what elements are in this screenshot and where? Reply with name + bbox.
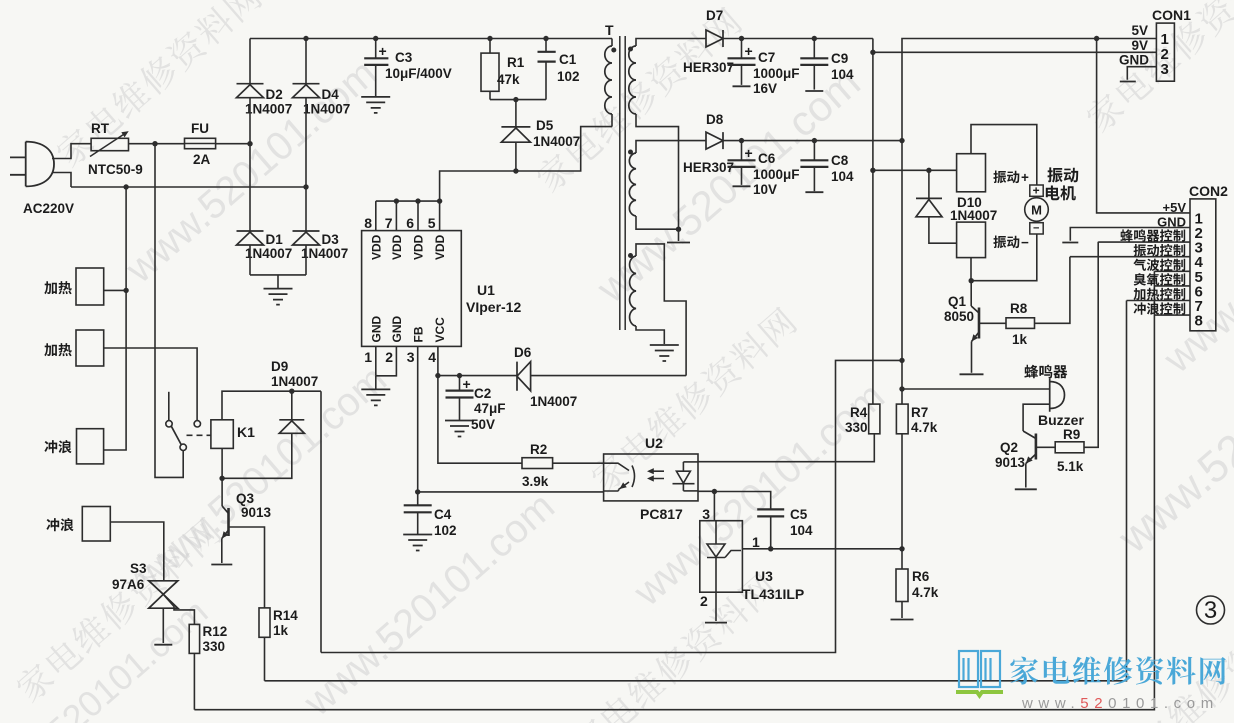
wire R2 to U2 collector	[553, 462, 604, 464]
wire CON2 pin5 line	[1154, 270, 1190, 272]
wire R14 to bus2	[264, 637, 266, 681]
svg-text:D1: D1	[266, 232, 284, 247]
label 蜂鸣器	[1024, 365, 1067, 379]
connector CON2	[1190, 199, 1216, 331]
wire R4 to opto LED	[698, 434, 874, 462]
wire D8 cathode rail	[723, 140, 902, 142]
connector terminal vib-	[957, 222, 986, 258]
wire D4-D3 leg upper	[305, 39, 307, 84]
svg-text:M: M	[1031, 203, 1042, 218]
ground Q3 emitter	[211, 564, 232, 566]
wire V1 AC-N drop	[104, 187, 127, 450]
wire heater-2 to relay NO	[104, 348, 197, 420]
svg-text:3: 3	[407, 349, 415, 365]
wire drain line to primary	[440, 127, 612, 202]
page number circle 3	[1197, 596, 1225, 624]
wire D4-D3 leg middle	[305, 98, 307, 231]
wire vib+ to motor	[971, 125, 1037, 185]
secondary-1 phase dot	[628, 47, 633, 52]
wire bus2 (heater control)	[265, 301, 1127, 681]
svg-text:GND: GND	[1119, 53, 1149, 68]
junction snubber / D5	[513, 97, 518, 102]
capacitor C3	[364, 58, 388, 65]
label 冲浪 1	[44, 440, 71, 453]
wire CON2 pin6 line	[1154, 285, 1190, 287]
decor	[12, 515, 224, 706]
ground bridge negative	[264, 289, 293, 305]
wire 5V rail corner and drop	[902, 39, 1156, 405]
wire plug-N to AC-N line	[52, 173, 71, 188]
junction VCC / C2	[457, 373, 462, 378]
IC U1 Viper-12 body	[362, 231, 462, 347]
junction VDD pins 6	[415, 198, 420, 203]
ground C4	[403, 535, 432, 551]
wire CON1 gnd	[1127, 67, 1156, 80]
wire bus1 (+5V to relay)	[321, 360, 902, 652]
svg-text:Buzzer: Buzzer	[1038, 412, 1084, 428]
decor	[1082, 0, 1234, 135]
svg-text:C3: C3	[395, 50, 413, 65]
svg-text:C2: C2	[474, 386, 491, 401]
svg-text:C9: C9	[831, 51, 848, 66]
label 臭氧控制	[1134, 273, 1186, 286]
wire U1 gnd drop	[375, 376, 377, 390]
junction 9V rail / C9	[812, 36, 817, 41]
svg-text:Q1: Q1	[948, 294, 967, 309]
junction ref / R7 / R6	[899, 546, 904, 551]
svg-text:+: +	[1021, 170, 1029, 185]
svg-text:S3: S3	[130, 561, 147, 576]
decor	[567, 570, 779, 723]
ground secondary common	[667, 242, 690, 244]
svg-text:D7: D7	[706, 8, 723, 23]
junction VDD pins 7	[394, 198, 399, 203]
svg-text:GND: GND	[390, 316, 404, 343]
wire D2-D1 leg upper	[249, 39, 251, 84]
svg-text:GND: GND	[369, 316, 383, 343]
U1 pin 8 stub	[375, 201, 377, 231]
wire C8 top stub	[813, 141, 815, 161]
secondary-2 phase dot	[628, 150, 633, 155]
svg-text:AC220V: AC220V	[23, 201, 74, 216]
wire Q1 emitter drop	[971, 342, 973, 373]
U1 pin 3 FB line	[417, 346, 419, 492]
wire secondary common drop	[678, 229, 680, 241]
U1 pin 5 stub	[439, 201, 441, 231]
svg-text:VCC: VCC	[433, 317, 447, 343]
U2 led	[673, 462, 695, 491]
svg-text:HER307: HER307	[683, 160, 734, 175]
resistor R1	[481, 53, 499, 91]
load box heater-1	[76, 268, 104, 305]
svg-text:10V: 10V	[753, 182, 777, 197]
junction 9V / CON1-2 line	[870, 50, 875, 55]
shunt reg U3 body	[700, 521, 743, 593]
svg-text:8: 8	[1195, 313, 1203, 330]
wire motor- to Q1	[971, 234, 1037, 281]
svg-text:8050: 8050	[944, 309, 974, 324]
svg-text:3: 3	[702, 506, 710, 522]
wire secondary-2 top connect	[636, 141, 706, 153]
diode D3	[293, 231, 320, 245]
wire D10 anode to vib-	[929, 217, 957, 243]
svg-text:330: 330	[203, 639, 226, 654]
wire C3 bottom stub	[375, 65, 377, 97]
svg-text:C1: C1	[559, 52, 577, 67]
svg-text:104: 104	[790, 523, 813, 538]
label 蜂鸣器控制	[1120, 229, 1185, 242]
svg-text:2: 2	[700, 593, 708, 609]
junction FB / C4 / U2 emitter	[415, 489, 420, 494]
primary phase dot	[611, 48, 616, 53]
svg-text:3.9k: 3.9k	[522, 474, 549, 489]
svg-text:50V: 50V	[471, 417, 495, 432]
svg-text:102: 102	[434, 523, 457, 538]
wire U3 pin2 stub	[715, 592, 717, 621]
junction AC-L / V2 riser	[152, 141, 157, 146]
wire C7 top stub	[741, 39, 743, 59]
U1 pin 4 VCC stub	[437, 346, 439, 375]
wire VDD pin jumper	[376, 200, 440, 202]
ground C7	[733, 85, 751, 87]
wire bus1 left riser	[320, 391, 322, 652]
U1 pin 7 stub	[395, 201, 397, 231]
thermistor RT	[90, 131, 129, 156]
capacitor C1	[538, 52, 556, 62]
svg-text:D9: D9	[271, 359, 288, 374]
svg-text:1N4007: 1N4007	[245, 246, 292, 261]
svg-text:+: +	[379, 43, 387, 59]
svg-text:TL431ILP: TL431ILP	[742, 586, 804, 602]
svg-text:330: 330	[845, 420, 868, 435]
wire plug-L to RT line	[52, 144, 91, 159]
svg-text:97A6: 97A6	[112, 577, 145, 592]
svg-text:1N4007: 1N4007	[271, 374, 318, 389]
svg-text:D4: D4	[322, 87, 340, 102]
wire C1 bottom stub	[545, 62, 547, 100]
transformer aux winding	[630, 256, 636, 326]
svg-text:4.7k: 4.7k	[911, 420, 938, 435]
wire 9V motor feed	[873, 169, 957, 171]
wire D4-D3 leg lower	[305, 245, 307, 275]
aux phase dot	[628, 253, 633, 258]
resistor R14	[259, 608, 270, 637]
svg-text:CON1: CON1	[1152, 7, 1191, 23]
transistor Q2	[1023, 431, 1036, 464]
label 加热 1	[44, 281, 71, 294]
svg-text:GND: GND	[1157, 215, 1186, 230]
wire S3 MT1 to ground	[162, 608, 164, 643]
ground C3	[361, 97, 390, 113]
svg-text:CON2: CON2	[1189, 183, 1228, 199]
wire vib- bottom	[970, 258, 972, 281]
junction coil-top / D9 cathode	[289, 389, 294, 394]
junction drain line / D5	[513, 168, 518, 173]
wire C8 bottom stub	[813, 167, 815, 191]
resistor R4	[869, 404, 880, 434]
svg-text:K1: K1	[237, 424, 255, 440]
wire D2-D1 leg middle	[249, 98, 251, 231]
wire U2 led anode out	[683, 461, 698, 463]
U1 pin 1 stub	[375, 346, 377, 375]
svg-text:C6: C6	[758, 151, 776, 166]
junction AC-N / V1 riser	[123, 184, 128, 189]
load box surf-2	[82, 507, 110, 542]
label 加热控制	[1134, 288, 1186, 301]
svg-text:104: 104	[831, 169, 854, 184]
svg-text:R6: R6	[912, 569, 930, 584]
svg-text:FU: FU	[191, 121, 209, 136]
svg-text:3: 3	[1161, 61, 1169, 78]
wire Q2 base to R9	[1036, 446, 1055, 448]
wire heater-1 to AC-N	[104, 289, 126, 291]
svg-text:5: 5	[428, 215, 436, 231]
relay K1 blade	[171, 426, 181, 444]
capacitor C9	[800, 58, 828, 65]
junction ref / C5 bottom	[768, 546, 773, 551]
wire C7 bottom stub	[741, 65, 743, 85]
wire secondary-1 return	[636, 114, 679, 229]
wire C2 top stub	[459, 376, 461, 391]
svg-text:9013: 9013	[241, 505, 272, 520]
svg-text:9V: 9V	[1131, 38, 1148, 53]
wire K1 coil top to +5V riser	[222, 391, 321, 420]
junction motor feed / D10	[926, 168, 931, 173]
resistor R7	[896, 404, 908, 434]
wire D5 cathode stub	[515, 100, 517, 127]
svg-text:1N4007: 1N4007	[950, 208, 997, 223]
decor	[1107, 593, 1234, 723]
wire R6 to ground	[901, 602, 903, 619]
svg-text:4.7k: 4.7k	[912, 585, 939, 600]
diode D8	[706, 132, 723, 149]
svg-text:102: 102	[557, 69, 580, 84]
svg-text:7: 7	[385, 215, 393, 231]
junction VCC node	[435, 373, 440, 378]
wire D2-D1 leg lower	[249, 245, 251, 275]
wire top DC bus	[250, 38, 612, 40]
diode D5	[501, 127, 530, 142]
label 气波控制	[1133, 259, 1185, 272]
logo book base	[956, 692, 1003, 696]
wire secondary-2 return	[636, 216, 679, 229]
label 振动 motor	[1047, 167, 1078, 182]
junction 5V / relay feed	[899, 358, 904, 363]
svg-text:5V: 5V	[1131, 23, 1148, 38]
svg-text:6: 6	[406, 215, 414, 231]
ground U1 source	[361, 389, 390, 405]
svg-text:www.520101.com: www.520101.com	[1021, 695, 1219, 712]
resistor R9	[1055, 442, 1084, 453]
wire C5 bottom stub	[770, 516, 772, 548]
triac S3	[149, 581, 178, 608]
svg-text:8: 8	[364, 215, 372, 231]
wire V2 AC-L drop to relay common	[155, 144, 183, 478]
transformer primary winding	[605, 46, 612, 114]
label 冲浪控制	[1134, 302, 1186, 315]
wire C5 top line	[714, 492, 770, 510]
svg-text:+: +	[745, 43, 753, 59]
svg-text:2A: 2A	[193, 152, 211, 167]
wire D7 cathode rail	[723, 38, 873, 40]
svg-text:C5: C5	[790, 507, 808, 522]
load box surf-1	[77, 429, 104, 464]
wire surf-2 to S3	[110, 522, 164, 581]
svg-text:C8: C8	[831, 153, 849, 168]
AC plug P1	[10, 142, 54, 187]
junction 5V / CON2 riser	[1094, 36, 1099, 41]
wire D10 cathode stub	[928, 170, 930, 198]
diode D1	[237, 231, 264, 245]
svg-text:PC817: PC817	[640, 506, 683, 522]
svg-text:1k: 1k	[1012, 332, 1028, 347]
svg-text:FB: FB	[412, 326, 426, 342]
wire C4 bottom stub	[417, 512, 419, 534]
relay K1 actuation link	[187, 434, 211, 436]
svg-text:NTC50-9: NTC50-9	[88, 162, 143, 177]
wire R1 top stub	[489, 39, 491, 54]
svg-text:1N4007: 1N4007	[533, 134, 580, 149]
svg-text:Q3: Q3	[236, 491, 255, 506]
wire CON2 pin3 line	[1098, 241, 1190, 243]
svg-text:−: −	[1033, 223, 1039, 235]
svg-text:47k: 47k	[497, 72, 520, 87]
label 冲浪 2	[46, 518, 73, 531]
junction 9V rail / C7	[739, 36, 744, 41]
capacitor C7	[728, 58, 756, 65]
svg-text:1N4007: 1N4007	[245, 102, 292, 117]
transistor Q3	[222, 506, 229, 539]
wire U3 pin3 stub	[713, 492, 715, 521]
wire bus3 (airwave control)	[194, 271, 1154, 709]
junction AC-N / D4-D3 leg	[303, 184, 308, 189]
logo text 家电维修资料网	[1010, 656, 1226, 684]
svg-text:VDD: VDD	[433, 234, 447, 260]
wire 9V line to CON1	[873, 51, 1157, 53]
wire S3 gate to R12	[163, 594, 194, 624]
junction 5V / buzzer feed	[899, 386, 904, 391]
U2 phototransistor	[604, 463, 635, 491]
junction bus / C1	[543, 36, 548, 41]
svg-text:VDD: VDD	[412, 234, 426, 260]
svg-text:VDD: VDD	[369, 234, 383, 260]
wire 9V rail corner and drop	[872, 39, 874, 405]
junction secondary returns	[676, 227, 681, 232]
capacitor C8	[800, 160, 828, 167]
wire U3 ref line	[742, 548, 902, 550]
junction 5V rail / C6	[739, 138, 744, 143]
transformer secondary-2 winding	[629, 153, 636, 216]
junction coil-bottom / D9 anode / Q3	[219, 476, 224, 481]
svg-text:1: 1	[364, 349, 372, 365]
svg-text:T: T	[605, 22, 614, 38]
svg-text:D5: D5	[536, 118, 554, 133]
svg-text:VDD: VDD	[390, 234, 404, 260]
wire R7 bottom	[901, 434, 903, 549]
connector CON1	[1156, 23, 1174, 81]
junction 9V / motor feed	[870, 168, 875, 173]
svg-text:104: 104	[831, 67, 854, 82]
svg-text:+: +	[745, 145, 753, 161]
wire K1 coil bottom	[221, 448, 223, 506]
relay K1 common contact	[180, 444, 186, 450]
wire VCC node to D6	[438, 375, 517, 377]
wire CON2 +5V riser	[1097, 39, 1190, 213]
wire CON2 pin2 gnd	[1070, 228, 1190, 241]
ground Q1	[960, 373, 984, 375]
wire primary bottom connect	[611, 114, 613, 127]
label 电机 motor	[1046, 185, 1076, 200]
wire D9 anode to coil bottom	[222, 433, 292, 478]
ground CON2	[1062, 242, 1078, 244]
junction 5V / D8 rail	[899, 138, 904, 143]
svg-text:VIper-12: VIper-12	[466, 299, 521, 315]
decor	[52, 0, 264, 170]
wire snubber join	[490, 99, 546, 101]
svg-text:10μF/400V: 10μF/400V	[385, 66, 452, 81]
wire D5 anode stub	[515, 142, 517, 171]
svg-text:16V: 16V	[753, 81, 777, 96]
wire Q2 emitter drop	[1025, 464, 1027, 488]
ground C8	[805, 191, 823, 193]
svg-text:47μF: 47μF	[474, 401, 506, 416]
relay coil K1	[211, 420, 233, 449]
wire C4 top stub	[417, 492, 419, 505]
svg-text:Q2: Q2	[1000, 440, 1018, 455]
ground aux winding	[650, 345, 679, 361]
wire FB line to U2	[418, 491, 604, 493]
ground R6	[891, 619, 914, 621]
resistor R12	[189, 624, 199, 653]
junction bus / D4 leg	[303, 36, 308, 41]
svg-text:C7: C7	[758, 50, 775, 65]
svg-text:R4: R4	[850, 405, 868, 420]
ground Q2	[1015, 488, 1037, 490]
diode D9	[279, 420, 304, 434]
diode D7	[706, 30, 723, 47]
svg-text:4: 4	[428, 349, 436, 365]
wire R1 bottom stub	[489, 91, 491, 99]
svg-text:5.1k: 5.1k	[1057, 459, 1084, 474]
wire CON2 pin8 line	[1154, 314, 1190, 316]
ground C2	[445, 421, 474, 437]
svg-text:D8: D8	[706, 112, 724, 127]
junction led cathode / U3 / C5	[712, 489, 717, 494]
junction bus / R1	[487, 36, 492, 41]
wire relay NC stub	[168, 392, 170, 421]
diode D2	[237, 84, 264, 98]
ground CON1	[1120, 81, 1136, 83]
resistor R2	[522, 458, 553, 469]
svg-text:D3: D3	[322, 232, 340, 247]
transistor Q1	[971, 306, 979, 342]
ground C9	[805, 90, 823, 92]
decor	[532, 5, 744, 196]
capacitor C6	[728, 160, 756, 167]
relay K1 NO contact	[194, 421, 200, 427]
resistor R8	[1006, 318, 1035, 329]
wire R9 to CON2 pin3	[1084, 242, 1098, 448]
wire D6 anode line	[531, 375, 687, 377]
wire C6 top stub	[741, 141, 743, 161]
svg-text:1N4007: 1N4007	[303, 102, 350, 117]
svg-text:R12: R12	[203, 624, 228, 639]
wire Q3 emitter to ground	[221, 539, 223, 564]
ground S3	[154, 644, 172, 646]
label 振动+	[993, 171, 1019, 184]
label 加热 2	[44, 343, 71, 356]
transformer core	[620, 36, 625, 330]
